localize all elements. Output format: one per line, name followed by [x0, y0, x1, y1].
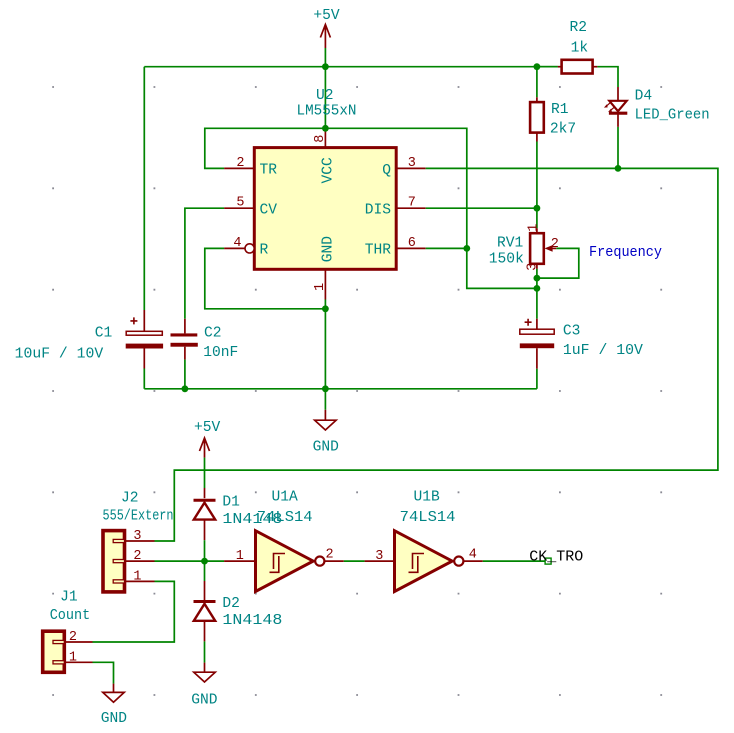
C3 plus sign — [525, 319, 532, 326]
wire U1A out to U1B in — [324, 560, 343, 562]
svg-text:7: 7 — [408, 196, 416, 211]
svg-text:3: 3 — [526, 263, 541, 271]
wire Q output to right rail and down to J2 pin3 — [155, 168, 718, 541]
J2 pin 3 — [113, 539, 124, 542]
resistor R2 1k — [537, 66, 558, 68]
svg-text:TR: TR — [260, 163, 278, 179]
svg-text:LM555xN: LM555xN — [297, 104, 357, 120]
svg-text:3: 3 — [375, 549, 383, 564]
RV1 wiper arrow pin 2 — [545, 245, 553, 252]
svg-text:+5V: +5V — [313, 8, 340, 24]
svg-text:2: 2 — [236, 156, 244, 171]
svg-text:C1: C1 — [95, 325, 113, 341]
svg-text:DIS: DIS — [365, 202, 392, 218]
wire U2 GND column — [324, 300, 326, 410]
wire J2 pin1 down to J1 pin2 — [93, 581, 175, 642]
svg-text:Frequency: Frequency — [589, 245, 662, 261]
diode D4 LED_Green — [617, 87, 619, 101]
svg-text:D4: D4 — [635, 88, 653, 104]
resistor R1 2k7 — [536, 67, 538, 98]
svg-text:6: 6 — [408, 236, 416, 251]
svg-text:1N4148: 1N4148 — [222, 613, 282, 629]
svg-text:8: 8 — [313, 135, 328, 143]
junction THR net / RV1 bottom — [534, 285, 541, 292]
svg-text:10nF: 10nF — [203, 345, 238, 361]
svg-text:CV: CV — [260, 202, 278, 218]
svg-text:U2: U2 — [316, 88, 334, 104]
svg-text:150k: 150k — [489, 252, 524, 268]
svg-text:C3: C3 — [563, 324, 581, 340]
svg-text:5: 5 — [236, 196, 244, 211]
svg-text:2: 2 — [69, 630, 77, 645]
svg-text:LED_Green: LED_Green — [635, 108, 710, 124]
wire J2 pin2 to node — [155, 560, 225, 562]
svg-text:1: 1 — [527, 224, 542, 232]
svg-text:2k7: 2k7 — [550, 122, 576, 138]
junction D1/D2/J2.2/U1A node — [201, 558, 208, 565]
svg-text:THR: THR — [365, 243, 392, 259]
U2 pin 8 VCC stub — [324, 127, 326, 147]
label anchor square CK_TRO — [545, 558, 551, 564]
svg-text:GND: GND — [321, 236, 337, 263]
diode D2 1N4148 — [204, 561, 206, 581]
connector J1 Count body — [43, 631, 65, 672]
wire +5V drop to C1 — [143, 67, 145, 310]
svg-text:GND: GND — [191, 692, 218, 708]
svg-text:RV1: RV1 — [497, 235, 524, 251]
junction C2 / rail — [182, 385, 189, 392]
connector J2 555/Extern body — [103, 531, 125, 592]
svg-text:74LS14: 74LS14 — [400, 510, 456, 526]
svg-text:J2: J2 — [121, 491, 139, 507]
U1A hysteresis symbol — [270, 554, 286, 573]
wire TR loop to THR net — [205, 128, 537, 288]
wire U1B output — [463, 560, 482, 562]
svg-text:R1: R1 — [551, 102, 569, 118]
svg-text:R: R — [260, 243, 269, 259]
svg-text:GND: GND — [101, 711, 128, 727]
svg-text:3: 3 — [408, 156, 416, 171]
wire +5V to U2 VCC — [324, 48, 326, 127]
power +5V (lower) — [200, 438, 210, 458]
svg-text:C2: C2 — [204, 325, 222, 341]
svg-text:U1A: U1A — [272, 489, 299, 505]
inverter U1A 74LS14 — [224, 560, 255, 562]
op-amp U2 LM555xN body — [254, 148, 396, 270]
svg-text:D1: D1 — [222, 495, 240, 511]
U2 pin 7 DIS stub — [396, 207, 426, 209]
svg-text:1uF / 10V: 1uF / 10V — [563, 343, 643, 359]
wire J1 pin1 to ground — [93, 662, 114, 683]
wire GND rail — [144, 388, 537, 390]
svg-text:3: 3 — [133, 529, 141, 544]
svg-text:4: 4 — [233, 236, 241, 251]
U2 pin 2 TR stub — [224, 167, 254, 169]
svg-text:1: 1 — [69, 650, 77, 665]
junction Q / LED branch — [615, 165, 622, 172]
svg-text:R2: R2 — [570, 20, 588, 36]
svg-text:D2: D2 — [222, 596, 240, 612]
svg-text:U1B: U1B — [414, 489, 441, 505]
J2 pin 1 — [113, 580, 124, 583]
capacitor C2 10nF — [184, 319, 186, 334]
svg-text:+5V: +5V — [194, 420, 221, 436]
junction +5V rail / VCC — [322, 63, 329, 70]
ground under U2 — [324, 410, 326, 420]
diode D1 1N4148 — [194, 499, 216, 502]
junction R / pin1 column — [322, 305, 329, 312]
svg-text:2: 2 — [551, 237, 559, 252]
potentiometer RV1 150k — [536, 208, 538, 228]
U2 pin 1 GND stub — [324, 269, 326, 299]
J1 pin 2 — [53, 640, 64, 643]
wire DIS to R1/RV1 — [426, 207, 537, 209]
svg-text:VCC: VCC — [321, 157, 337, 184]
svg-text:GND: GND — [313, 439, 340, 455]
junction +5V rail / R1 branch — [534, 63, 541, 70]
svg-text:Q: Q — [382, 163, 391, 179]
junction DIS / R1 / RV1 — [534, 205, 541, 212]
RV1 wiper return wire — [537, 248, 579, 278]
U1B hysteresis symbol — [409, 554, 425, 573]
capacitor C1 10uF/10V polarized — [143, 310, 145, 331]
svg-text:1: 1 — [236, 549, 244, 564]
junction U2 GND / rail — [322, 385, 329, 392]
power +5V (top) — [320, 25, 330, 49]
U2 pin 4 R stub with inversion bubble — [224, 247, 245, 249]
svg-text:CK_TRO: CK_TRO — [529, 550, 583, 566]
svg-text:2: 2 — [133, 549, 141, 564]
J2 pin 2 — [113, 560, 124, 563]
wire R to GND net — [205, 248, 326, 308]
svg-text:J1: J1 — [60, 590, 78, 606]
J1 pin 1 — [53, 661, 64, 664]
wire +5V top rail — [144, 66, 558, 68]
D4 emission arrows — [606, 103, 615, 111]
wire THR to vertical — [426, 247, 467, 249]
svg-text:74LS14: 74LS14 — [257, 510, 313, 526]
U2 pin 6 THR stub — [396, 247, 426, 249]
svg-text:555/Extern: 555/Extern — [103, 508, 174, 524]
junction RV1 wiper / pin3 — [534, 275, 541, 282]
junction THR tap — [463, 245, 470, 252]
U2 pin 3 Q stub — [396, 167, 426, 169]
svg-text:1k: 1k — [571, 40, 589, 56]
svg-text:10uF / 10V: 10uF / 10V — [15, 347, 104, 363]
ground under J1 — [113, 684, 115, 693]
svg-text:Count: Count — [50, 608, 90, 624]
U2 pin 5 CV stub — [224, 207, 254, 209]
svg-text:1: 1 — [313, 283, 328, 291]
wire +5V lower to D1 — [204, 458, 206, 488]
inverter U1B 74LS14 — [395, 531, 453, 592]
junction TR net / VCC column — [322, 125, 329, 132]
C1 plus sign — [130, 317, 137, 324]
wire D1 to node — [204, 540, 206, 561]
wire CV to C2 — [185, 208, 224, 319]
capacitor C3 1uF/10V polarized — [536, 288, 538, 318]
svg-text:1: 1 — [133, 570, 141, 585]
ground under D2 — [204, 663, 206, 673]
